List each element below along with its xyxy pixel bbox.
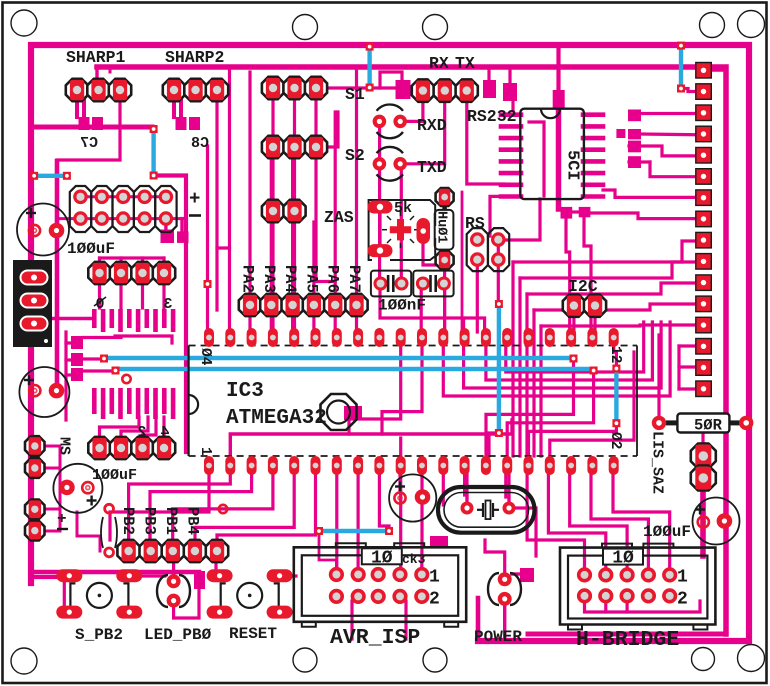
wire 5k pad link [378, 213, 381, 245]
smd ic2 comb top 6 [136, 309, 141, 332]
led LED_PB0 pad2 [167, 594, 181, 608]
trimmer 5k cross pad [390, 219, 411, 240]
IC3 pin 36 pad [289, 328, 299, 347]
ZAS_SIL pin 2 [696, 84, 712, 100]
led LED_PB0 body [157, 575, 190, 607]
jumper blue 2 [151, 132, 155, 174]
AVR_ISP pad 9 [395, 591, 406, 602]
wire st3v [525, 294, 528, 456]
header pad 10 [161, 213, 172, 224]
IC3 socket top dashed [189, 345, 637, 347]
wire ic5r2 [641, 132, 696, 136]
wire esc13 [465, 470, 467, 505]
left pair1 pad1 [25, 436, 45, 456]
svg-text:+: + [57, 510, 67, 528]
switch RESET pad4 [267, 606, 293, 619]
IC3 pin 16 pad [524, 456, 534, 475]
wire esc9 [379, 470, 389, 531]
wire st1v [511, 262, 514, 456]
IC3 pin 4 pad [268, 456, 278, 475]
via 18 [385, 527, 393, 535]
wire 4row stub4 [162, 258, 165, 273]
via 19 [204, 280, 212, 288]
via 7 [150, 125, 158, 133]
svg-text:1Ø: 1Ø [371, 548, 393, 568]
ic5 pin R2 [583, 124, 603, 129]
switch S_PB2 pad2 [116, 569, 142, 582]
IC3 pin 1 pad [204, 456, 214, 475]
wire st3 [527, 283, 696, 294]
wire header row2 bus [57, 217, 186, 220]
wire st1 [513, 241, 696, 262]
svg-text:RESET: RESET [229, 625, 277, 643]
resistor 50R pad1 [652, 416, 666, 430]
wire cap4 drop [398, 468, 401, 492]
svg-text:C7: C7 [80, 135, 98, 152]
label minus pb [57, 528, 68, 530]
wire comb bus [115, 336, 172, 343]
wire PA stub3 [270, 310, 273, 330]
connector PB pad 3 [162, 540, 184, 562]
connector I2C pad 1 [563, 295, 585, 317]
node row4b pad 1 [88, 437, 110, 459]
AVR_ISP pad 4 [395, 569, 406, 580]
wire ic5 bot drop2 [584, 214, 591, 332]
wire 100nf drop1 [420, 288, 423, 332]
connector SHARP1 pad 2 [87, 79, 109, 101]
wire sharp2 pad3 drop [217, 98, 230, 248]
wire 4row drop2 [119, 278, 122, 308]
wire row4b jog2 [121, 417, 148, 441]
capacitor 100nF 1 pads [375, 275, 406, 292]
left pair2 pad2 [25, 521, 45, 541]
connector PB pad 4 [184, 540, 206, 562]
ZAS_SIL pin 12 [696, 296, 712, 312]
switch S_PB2 pad4 [116, 606, 142, 619]
wire PA stub5 [312, 310, 315, 330]
ZAS_SIL pin 16 [696, 381, 712, 397]
wire left cap feed [55, 161, 60, 392]
svg-text:1: 1 [197, 447, 213, 456]
wire S2 link [321, 112, 338, 147]
svg-text:1ØØuF: 1ØØuF [643, 523, 691, 541]
wire row4b jog1 [100, 417, 140, 441]
wire esc18 [591, 470, 648, 570]
svg-text:PA5: PA5 [302, 265, 320, 293]
IC3 pin 3 pad [247, 456, 257, 475]
header pad 1 [75, 191, 86, 202]
wire bottom bus 2 [528, 632, 722, 637]
IC3 pin 9 pad [374, 456, 384, 475]
wire feeder318 [380, 288, 485, 332]
svg-text:TXD: TXD [417, 158, 447, 177]
smd ic2 comb bot 1 [92, 388, 97, 414]
svg-text:2: 2 [137, 424, 146, 441]
smd ic2 comb top 4 [118, 309, 123, 332]
trimmer 5k pad1 [368, 201, 393, 214]
wire led riser [172, 557, 175, 575]
smd ic2 comb top 8 [153, 309, 158, 332]
wire reset up [214, 557, 217, 570]
diode D1 via1 [105, 504, 114, 513]
wire 5k right link [423, 238, 445, 265]
smd xtal pad [344, 406, 362, 420]
wire 100nf drop2 [443, 288, 446, 332]
ic5 pin L8 [501, 194, 521, 199]
AVR_ISP pad 6 [331, 591, 342, 602]
wire PA stub2 [248, 310, 251, 330]
wire rs drop [497, 245, 500, 300]
AVR_ISP pad 5 [416, 569, 427, 580]
wire hb row2 bus [585, 601, 701, 612]
mounting hole 2 [293, 15, 318, 40]
wire st5v [539, 326, 542, 456]
via 1 [366, 43, 374, 51]
capacitor C4 plus [395, 482, 405, 492]
wire leftpads h2 [41, 467, 60, 470]
node S1 col pad 1 [262, 77, 284, 99]
connector POWER pad2 [498, 592, 512, 606]
capacitor C5 100uF pad+ [698, 516, 709, 527]
wire 4row drop4 [162, 278, 165, 308]
ic5 pin R4 [583, 147, 603, 152]
wire bottom-left bus [32, 570, 199, 574]
ic5 pin L7 [501, 183, 521, 188]
IC3 pin 20 pad [609, 456, 619, 475]
wire rs drop2 [476, 264, 479, 332]
wire dip40 feed [206, 146, 209, 330]
svg-text:PB1: PB1 [162, 507, 180, 535]
svg-text:IC3: IC3 [226, 380, 264, 403]
capacitor 100nF 1 body [371, 271, 411, 297]
smd pad top1 [483, 80, 496, 98]
wire g3 [464, 322, 661, 388]
connector PA pad 1 [239, 294, 261, 316]
smd ic5 r3 [628, 141, 641, 153]
label minus header [189, 214, 201, 217]
H-BRIDGE pad 7 [600, 590, 611, 601]
ZAS_SIL pin 10 [696, 254, 712, 270]
header pad 5 [161, 191, 172, 202]
svg-text:2: 2 [429, 590, 440, 610]
smd pad C8a [176, 117, 187, 130]
smd ic5 top [553, 90, 565, 109]
IC3 pin 26 pad [502, 328, 512, 347]
smd ic2 sq2 [71, 353, 83, 366]
wire esc2 [129, 472, 231, 543]
connector RX-TX pad 2 [434, 79, 456, 101]
wire rxd drop [378, 128, 381, 276]
wire sharp1 pad3 loop [57, 98, 120, 160]
wire esc16 [548, 470, 605, 570]
wire rs232 riser [511, 92, 514, 110]
wire ic5 bot sq link [572, 210, 580, 213]
svg-text:3: 3 [163, 296, 172, 313]
connector RS cells [467, 228, 510, 271]
svg-text:1: 1 [429, 568, 440, 588]
H-BRIDGE pad 4 [643, 569, 654, 580]
AVR_ISP pad 10 [416, 591, 427, 602]
wire st4 [534, 304, 696, 310]
IC3 pin 11 pad [417, 456, 427, 475]
inductor 10uH pad top [436, 188, 454, 206]
H-BRIDGE pad 6 [579, 590, 590, 601]
mounting hole 8 [423, 648, 447, 672]
smd ic5 r2 [628, 129, 641, 139]
wire PA5 riser [312, 222, 315, 300]
jumper blue 3 [367, 49, 371, 85]
svg-text:Ø4: Ø4 [197, 348, 213, 366]
AVR_ISP pad 1 [331, 569, 342, 580]
op-amp IC5 body [520, 109, 584, 199]
IC3 pin 24 pad [545, 328, 555, 347]
wire ic5 pin drop [498, 199, 540, 240]
wire blue via feed2 [83, 369, 113, 372]
H-BRIDGE pad 10 [664, 590, 675, 601]
wire st2 [520, 262, 696, 278]
smd ic2 comb top 10 [171, 309, 176, 332]
IC3 pin 37 pad [268, 328, 278, 347]
wire spb2 link [130, 574, 165, 577]
IC3 pin 32 pad [374, 328, 384, 347]
capacitor C5 100uF plus [695, 505, 705, 515]
svg-text:S_PB2: S_PB2 [75, 626, 123, 644]
diode TXD pad1 [373, 157, 387, 171]
wire isp exit1 [350, 601, 353, 639]
smd ic5 r5 [616, 129, 625, 138]
wire esc4 [173, 472, 273, 543]
node row4 pad 1 [88, 262, 110, 284]
IC3 pin 27 pad [481, 328, 491, 347]
svg-text:1: 1 [677, 568, 688, 588]
wire header col5b drop [180, 219, 183, 236]
wire g4 [443, 322, 670, 396]
svg-text:ATMEGA32: ATMEGA32 [226, 407, 327, 430]
H-BRIDGE pad 8 [622, 590, 633, 601]
wire stub463 [462, 318, 465, 332]
capacitor C2 100uF outline [19, 367, 69, 417]
wire S_PB2 stub [31, 575, 60, 579]
IC3 pin 25 pad [524, 328, 534, 347]
svg-text:Ø2: Ø2 [607, 432, 623, 449]
ZAS_SIL pin 15 [696, 360, 712, 376]
node row4b pad 4 [153, 437, 175, 459]
connector SHARP2 pad 3 [206, 79, 228, 101]
header pad 4 [139, 191, 150, 202]
wire cap1 stub [56, 219, 59, 231]
smd pad C8b [189, 117, 200, 130]
capacitor C1 100uF pad+ [29, 225, 40, 236]
via ring b [219, 505, 227, 513]
resistor 50R body [666, 414, 741, 433]
wire row4b jog4 [162, 417, 165, 441]
wire ic5r3 [629, 146, 696, 156]
trimmer 5k pad3 [417, 218, 431, 244]
svg-text:PA2: PA2 [239, 265, 257, 293]
node S1 col pad 2 [283, 77, 305, 99]
ZAS_SIL pin 4 [696, 126, 712, 142]
wire leftpads h3 [41, 508, 60, 511]
via 4 [677, 85, 685, 93]
wire comb feeder [52, 317, 92, 321]
ZAS_SIL big pad1 [691, 444, 716, 469]
node S2 col pad 3 [305, 136, 327, 158]
wire ic5 pin1 riser [556, 46, 560, 95]
wire esc15 [527, 470, 584, 570]
wire pad400 stub [399, 438, 402, 458]
smd isp top [430, 536, 448, 547]
wire st2v [518, 278, 521, 456]
svg-text:SHARP1: SHARP1 [66, 48, 126, 67]
wire ic5r4 [650, 162, 696, 177]
trimmer 5k pad2 [368, 244, 393, 257]
capacitor C4 pad+ [394, 492, 405, 503]
mounting hole 3 [423, 15, 448, 40]
svg-text:PA7: PA7 [345, 265, 363, 293]
IC3 pin 15 pad [502, 456, 512, 475]
capacitor C3 100uF plus [87, 496, 97, 506]
wire st4v [532, 310, 535, 456]
smd power pad [520, 568, 534, 582]
switch RESET body [221, 583, 279, 608]
mounting hole 4 [700, 13, 725, 38]
H-BRIDGE pad 5 [664, 569, 675, 580]
connector POWER body [488, 573, 521, 605]
wire leftpads h4 [41, 530, 60, 533]
wire pb stub1 [127, 530, 130, 545]
smd ic2 comb bot 7 [145, 388, 150, 414]
svg-text:C8: C8 [191, 135, 209, 152]
smd ic2 comb bot 4 [118, 388, 123, 419]
wire S1 link [321, 86, 366, 89]
svg-text:S1: S1 [345, 85, 365, 104]
jumper blue vert D [614, 371, 618, 421]
connector SHARP1 pad 3 [109, 79, 131, 101]
connector AVR_ISP outer [294, 543, 466, 627]
wire ic5 left drop [490, 196, 502, 236]
mounting hole 1 [11, 10, 37, 36]
wire power stub [476, 598, 481, 641]
wire leftpads h1 [41, 445, 60, 448]
header pad 6 [75, 213, 86, 224]
node row4 pad 4 [153, 262, 175, 284]
svg-text:ZAS: ZAS [324, 208, 354, 227]
wire sil stub15 [679, 365, 696, 368]
ZAS_SIL big pad2 [691, 466, 716, 491]
smd pad hdr2 [177, 231, 189, 243]
wire sharp2 pad1 stub [172, 95, 176, 117]
ZAS_SIL pin 3 [696, 105, 712, 121]
svg-text:H-BRIDGE: H-BRIDGE [576, 628, 679, 652]
wire esc6 [217, 472, 316, 543]
wire rxtx3 drop [467, 98, 504, 184]
IC3 pin 35 pad [311, 328, 321, 347]
svg-text:LED_PBØ: LED_PBØ [144, 626, 212, 644]
wire branch to header [154, 176, 186, 453]
ic5 pin R8 [583, 194, 603, 199]
supply pad2 [21, 294, 48, 308]
svg-text:ck3: ck3 [402, 552, 426, 567]
svg-text:5k: 5k [394, 200, 412, 217]
wire 4row stub1 [98, 258, 101, 273]
wire isp exit2 [404, 601, 407, 639]
via 12 [590, 367, 598, 375]
trimmer R 5k body [369, 200, 436, 260]
smd pad hdr1 [161, 230, 175, 244]
via 11 [570, 355, 578, 363]
via 16 [495, 429, 503, 437]
wire smd feed2 [66, 358, 71, 361]
wire esc7 [335, 472, 338, 568]
svg-text:1ØØuF: 1ØØuF [92, 467, 137, 484]
svg-text:4: 4 [160, 424, 169, 441]
wire via681 stub [681, 89, 699, 92]
wire xtal right [507, 468, 510, 502]
wire rxtx1 drop [407, 98, 423, 121]
diode RXD pad1 [373, 115, 387, 129]
via 15 [495, 300, 503, 308]
header pad 9 [139, 213, 150, 224]
IC3 pin 7 pad [332, 456, 342, 475]
wire ic5 bot drop1 [566, 214, 570, 332]
wire esc8 [357, 470, 360, 568]
connector PA pad 5 [324, 294, 346, 316]
wire st5 [541, 325, 696, 326]
wire esc19 [613, 470, 670, 570]
header pad 7 [96, 213, 107, 224]
connector SHARP2 pad 1 [163, 79, 185, 101]
ic5 pin L5 [501, 159, 521, 164]
wire colA2 drop [293, 93, 296, 330]
wire PA6 riser [334, 112, 337, 300]
IC3 pin 31 pad [396, 328, 406, 347]
via 17 [315, 527, 323, 535]
node row4 pad 2 [110, 262, 132, 284]
header pad 3 [118, 191, 129, 202]
mounting hole 7 [293, 648, 317, 672]
wire ic2 sq stub [83, 336, 121, 339]
switch RESET pad3 [207, 606, 233, 619]
svg-text:AVR_ISP: AVR_ISP [330, 626, 420, 650]
ic5 pin R3 [583, 136, 603, 141]
capacitor C5 100uF outline [693, 498, 740, 545]
svg-text:S2: S2 [345, 146, 365, 165]
via 10 [112, 367, 120, 375]
smd pad top2 [503, 83, 517, 101]
jumper blue 1 [36, 174, 66, 178]
wire sil v [677, 346, 680, 389]
IC3 pin 33 pad [353, 328, 363, 347]
wire power up [485, 540, 505, 573]
wire PA7 riser [355, 69, 358, 300]
IC3 pin 40 pad [204, 328, 214, 347]
wire ic5r6 [584, 213, 696, 219]
svg-text:POWER: POWER [474, 628, 522, 646]
connector H-BRIDGE 10 box [603, 549, 643, 565]
svg-text:MS: MS [56, 437, 73, 455]
switch RESET pad1 [207, 569, 233, 582]
H-BRIDGE pad 3 [622, 569, 633, 580]
wire 10uH bot drop [443, 264, 446, 332]
wire xtal left [465, 468, 468, 502]
wire leftpads v [59, 446, 62, 531]
IC3 pin 10 pad [396, 456, 406, 475]
capacitor 100nF 2 pads [418, 275, 449, 292]
smd ic2 comb bot 2 [101, 388, 106, 419]
svg-text:1ØØuF: 1ØØuF [67, 240, 115, 258]
IC3 socket left edge [189, 346, 199, 457]
connector PA pad 2 [260, 294, 282, 316]
